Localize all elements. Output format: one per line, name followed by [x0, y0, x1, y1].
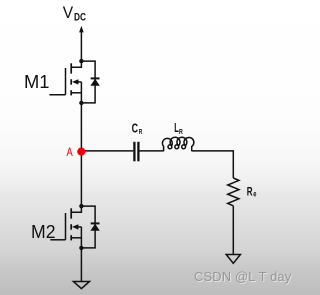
svg-text:R: R — [179, 127, 183, 136]
capacitor CR plates — [134, 142, 138, 162]
svg-text:R: R — [139, 127, 143, 136]
label Re — [247, 184, 257, 198]
node: M2 drain junction — [79, 204, 83, 208]
transistor M2 body arrow — [72, 224, 81, 229]
node: M2 source junction — [79, 246, 83, 250]
transistor M1 body arrow — [72, 79, 81, 84]
wire: M2 drain stub — [72, 206, 82, 212]
svg-text:V: V — [63, 4, 73, 22]
svg-text:R: R — [247, 184, 253, 198]
diode D1 (M1 body diode) branch wires — [81, 61, 95, 103]
svg-text:C: C — [132, 121, 139, 136]
wire: M1 source side vertical — [80, 82, 82, 103]
node: M1 source junction — [79, 101, 83, 105]
svg-text:M2: M2 — [31, 221, 56, 242]
svg-text:M1: M1 — [24, 71, 50, 92]
diode D1 cathode bar — [91, 77, 100, 79]
svg-text:DC: DC — [74, 12, 86, 24]
ground (right, open triangle) — [226, 255, 240, 264]
transistor M2 gate lead — [50, 239, 65, 241]
label LR — [174, 121, 183, 136]
svg-text:e: e — [253, 189, 257, 198]
wire: M1 drain stub — [72, 61, 82, 67]
wire: M1 source down through node A to M2 drain — [80, 103, 82, 206]
wire: M2 source side vertical — [80, 227, 82, 248]
wire: M2 source to ground — [80, 248, 82, 282]
wire: M1 source lead — [72, 92, 82, 94]
watermark — [194, 269, 291, 284]
svg-text:A: A — [67, 145, 73, 159]
transistor M1 gate plate — [65, 68, 67, 95]
inductor LR coil — [162, 137, 193, 151]
transistor M1 channel bars — [70, 63, 72, 95]
wire: capacitor to inductor — [140, 150, 164, 152]
transistor M1 gate lead — [49, 94, 65, 96]
label CR — [132, 121, 143, 136]
wire: node A to capacitor — [81, 150, 133, 152]
wire: resistor to ground — [232, 206, 234, 255]
wire: M2 source lead — [72, 237, 82, 239]
transistor M2 gate plate — [65, 213, 67, 240]
transistor M2 channel bars — [70, 208, 72, 240]
ground (bottom, open triangle) — [73, 282, 89, 289]
resistor Re zigzag — [228, 178, 239, 206]
label VDC — [63, 4, 86, 24]
diode D1 triangle — [90, 79, 99, 86]
VDC supply arrow — [79, 26, 84, 61]
node: M1 drain junction — [79, 59, 83, 63]
node A red dot — [77, 148, 85, 156]
diode D2 (M2 body diode) branch wires — [81, 206, 95, 248]
diode D2 triangle — [90, 224, 99, 231]
diode D2 cathode bar — [91, 222, 100, 224]
wire: inductor to right corner and down — [192, 151, 234, 178]
